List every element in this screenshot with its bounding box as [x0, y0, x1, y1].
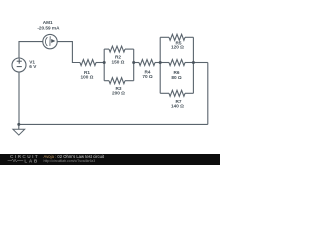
- svg-text:140 Ω: 140 Ω: [171, 103, 184, 108]
- svg-text:AM1: AM1: [43, 20, 53, 25]
- junction node C: [159, 61, 162, 64]
- wire V1 bottom: [18, 72, 20, 124]
- svg-text:LAB: LAB: [24, 158, 38, 163]
- resistor R5: [169, 34, 185, 40]
- junction node B: [132, 61, 135, 64]
- label R2: [112, 54, 125, 64]
- resistor R4: [139, 60, 155, 66]
- wire box2 bottom branch right: [185, 92, 193, 94]
- resistor R7: [169, 90, 185, 96]
- wire ground stub: [18, 124, 20, 129]
- wire box1 top branch left: [104, 48, 109, 50]
- wire box1 bottom branch right: [125, 80, 134, 82]
- wire node D to right corner: [193, 62, 207, 64]
- label R6: [171, 70, 182, 80]
- wire bottom rail: [19, 123, 208, 125]
- junction node bottom left: [17, 123, 20, 126]
- wire box1 right rail: [133, 49, 135, 81]
- wire box2 top branch left: [160, 36, 169, 38]
- wire R4 to node C: [155, 62, 160, 64]
- svg-text:200 Ω: 200 Ω: [112, 91, 125, 96]
- junction node D: [192, 61, 195, 64]
- resistor R3: [109, 78, 125, 84]
- wire R1 to node A: [96, 62, 104, 64]
- ground: [13, 129, 25, 135]
- svg-text:-20.59 mA: -20.59 mA: [37, 26, 60, 31]
- wire box1 left rail: [103, 49, 105, 81]
- label R3: [112, 86, 125, 96]
- wire box2 top branch right: [185, 36, 193, 38]
- svg-text:80 Ω: 80 Ω: [171, 75, 182, 80]
- svg-text:150 Ω: 150 Ω: [112, 60, 125, 65]
- svg-text:http://circuitlab.com/c/7sva4k: http://circuitlab.com/c/7sva4kr6z3: [44, 159, 96, 163]
- footer logo wave: [8, 159, 24, 162]
- wire box1 top branch right: [125, 48, 134, 50]
- footer bar: [0, 154, 220, 165]
- resistor R2: [109, 46, 125, 52]
- voltage source V1: [12, 58, 37, 72]
- wire box2 mid branch right: [185, 62, 193, 64]
- wire V1 top to corner: [19, 42, 43, 58]
- label R4: [142, 70, 153, 79]
- wire node B to R4: [134, 62, 139, 64]
- ammeter AM1: [37, 20, 60, 49]
- wire ammeter right to corner down to R1: [57, 42, 80, 63]
- resistor R6: [169, 60, 185, 66]
- svg-text:120 Ω: 120 Ω: [171, 45, 184, 50]
- svg-text:6 V: 6 V: [29, 64, 37, 69]
- resistor R1: [80, 60, 96, 66]
- wire box2 left rail: [159, 37, 161, 93]
- label R7: [171, 99, 184, 108]
- label R5: [171, 40, 184, 49]
- wire box1 bottom branch left: [104, 80, 109, 82]
- wire box2 mid branch left: [160, 62, 169, 64]
- svg-text:100 Ω: 100 Ω: [81, 74, 94, 79]
- wire box2 bottom branch left: [160, 92, 169, 94]
- label R1: [81, 70, 94, 80]
- svg-text:70 Ω: 70 Ω: [142, 74, 153, 79]
- wire box2 right rail: [192, 37, 194, 93]
- wire right side down: [207, 63, 209, 125]
- junction node A: [103, 61, 106, 64]
